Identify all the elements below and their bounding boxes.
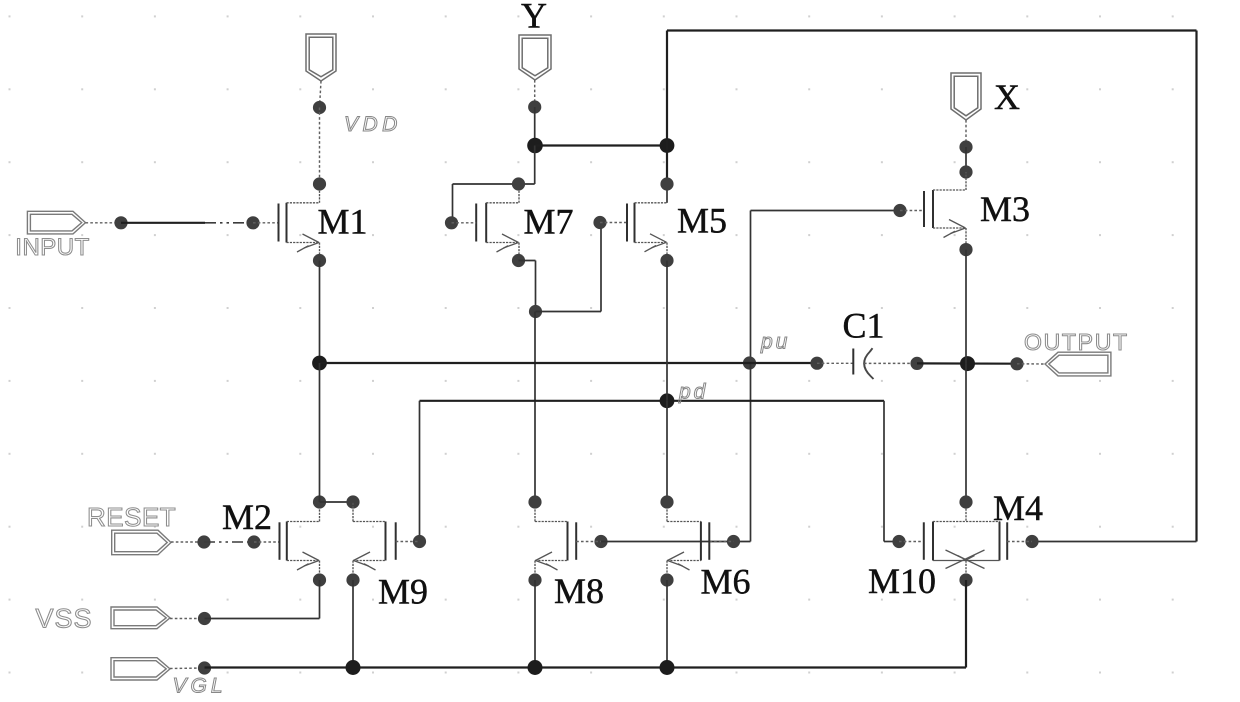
- port RESET: [112, 530, 171, 555]
- junction M2 source: [313, 573, 326, 586]
- wire M5 gate lead: [600, 222, 627, 224]
- wire pu row to OUTPUT: [917, 362, 1017, 365]
- junction M5 gate: [593, 216, 606, 229]
- wire M7 source to node n1: [519, 260, 536, 262]
- junction M3 gate: [893, 204, 906, 217]
- svg-text:VDD: VDD: [344, 113, 402, 136]
- junction M8 gate: [594, 535, 607, 548]
- wire M3 gate horizontal: [751, 210, 901, 212]
- junction M10 gate: [892, 535, 905, 548]
- wire M7 gate loop vertical: [452, 184, 454, 223]
- junction VDD stub: [313, 101, 326, 114]
- junction X stub: [959, 140, 972, 153]
- wire VGL rail: [205, 666, 967, 668]
- wire RESET to M2 gate: [254, 541, 280, 543]
- wire M1 source down to pu row: [319, 261, 321, 364]
- transistor M6 (mirrored): [708, 522, 710, 560]
- port VSS: [111, 607, 170, 629]
- wire loop left edge (x=667 up to box): [666, 31, 668, 146]
- wire M8 source down to VGL rail: [534, 580, 536, 668]
- transistor M9 (mirrored): [395, 522, 397, 560]
- wire M10 gate corner: [884, 541, 899, 543]
- junction M6 drain: [660, 495, 673, 508]
- wire M10 gate lead: [899, 541, 924, 543]
- junction INPUT gate side: [246, 216, 259, 229]
- wire RESET port lead: [171, 541, 204, 543]
- shared source arrows M10/M4: [946, 550, 985, 569]
- junction VGL lead: [198, 661, 211, 674]
- transistor M3: [923, 191, 925, 227]
- wire VSS to M2 source: [205, 618, 320, 620]
- junction node n1 corner: [529, 305, 542, 318]
- junction M9 gate: [413, 535, 426, 548]
- svg-text:M9: M9: [378, 572, 428, 612]
- wire pd right drop to M10 gate: [883, 401, 885, 542]
- wire M8 gate to M6 gate: [601, 541, 734, 543]
- junction VGL rail at M9: [346, 660, 361, 675]
- junction M7 drain: [512, 177, 525, 190]
- svg-text:M7: M7: [524, 202, 574, 242]
- junction pu left (M1/M2 column): [312, 356, 327, 371]
- capacitor C1: [852, 349, 854, 375]
- junction pu row at C1 left: [810, 357, 823, 370]
- svg-text:M2: M2: [222, 497, 272, 537]
- wire C1 left lead: [817, 362, 853, 364]
- wire Y branch horizontal: [535, 144, 667, 146]
- wire loop right edge: [1195, 31, 1197, 542]
- wire M7 drain node horizontal: [453, 183, 535, 185]
- junction M10/M4 drain: [959, 495, 972, 508]
- junction M2 drain: [313, 495, 326, 508]
- wire pd down to M6 drain: [666, 401, 668, 502]
- wire pu row left: [320, 362, 818, 364]
- wire pd left drop to M9 gate: [419, 401, 421, 542]
- junction Y stub: [528, 100, 541, 113]
- port OUTPUT: [1045, 352, 1111, 376]
- wire pu column (M3 gate down to pu row): [750, 211, 752, 364]
- svg-text:pd: pd: [678, 381, 708, 404]
- transistor M8 (mirrored): [575, 522, 577, 560]
- junction M8 drain: [528, 495, 541, 508]
- wire M2/M9 drain tie: [320, 501, 354, 503]
- pin Y (supply flag top centre): [519, 35, 551, 80]
- junction M3 source: [959, 243, 972, 256]
- wire M3 column down to M10/M4: [965, 364, 967, 502]
- junction VSS lead: [198, 612, 211, 625]
- svg-text:VSS: VSS: [36, 604, 93, 634]
- wire INPUT to M1 gate: [121, 222, 205, 224]
- junction M5 source: [660, 254, 673, 267]
- svg-text:C1: C1: [843, 305, 885, 345]
- wire Y vertical to branch: [534, 107, 536, 146]
- junction VGL rail at M8: [528, 660, 543, 675]
- wire M5 gate column vertical: [600, 223, 602, 312]
- svg-text:Y: Y: [521, 0, 547, 36]
- junction VGL rail at M6: [660, 660, 675, 675]
- wire INPUT gate lead: [253, 222, 279, 224]
- wire M5 drain from Y branch: [666, 146, 668, 185]
- wire VDD pin stub: [320, 81, 322, 108]
- pin X (supply flag right): [951, 73, 981, 120]
- junction RESET gate side: [247, 535, 260, 548]
- transistor M5: [626, 204, 628, 242]
- wire X pin stub: [965, 120, 967, 147]
- junction INPUT lead: [114, 216, 127, 229]
- junction M1 source: [313, 254, 326, 267]
- wire C1 right lead: [864, 362, 917, 364]
- junction M6 gate: [727, 535, 740, 548]
- wire INPUT dash-dot segment: [205, 222, 253, 224]
- svg-text:M5: M5: [677, 201, 727, 241]
- junction M4 gate: [1025, 535, 1038, 548]
- svg-text:M3: M3: [980, 189, 1030, 229]
- svg-text:M1: M1: [318, 202, 368, 242]
- wire Y pin stub: [534, 80, 536, 107]
- junction M8 source: [528, 573, 541, 586]
- wire M5 source down to pd: [666, 261, 668, 401]
- wire pu column corner to M6 gate: [734, 541, 751, 543]
- wire M7 gate lead: [452, 222, 477, 224]
- svg-text:OUTPUT: OUTPUT: [1024, 329, 1129, 355]
- junction OUTPUT lead: [1010, 357, 1023, 370]
- wire X to M3 drain: [965, 147, 967, 172]
- wire RESET middle: [204, 541, 254, 543]
- junction M9 source: [346, 573, 359, 586]
- svg-text:X: X: [994, 77, 1020, 117]
- wire loop top edge: [667, 29, 1197, 31]
- svg-text:M8: M8: [554, 571, 604, 611]
- wire M3 source down to pu row: [965, 250, 967, 364]
- wire OUTPUT port lead: [1017, 363, 1045, 365]
- wire M4 gate lead: [1007, 541, 1032, 543]
- junction Y branch right: [660, 138, 675, 153]
- wire M6 source down to VGL rail: [666, 580, 668, 668]
- wire M1 column down to M2 drain: [319, 363, 321, 502]
- svg-text:RESET: RESET: [87, 502, 176, 532]
- wire pd row: [420, 400, 885, 402]
- svg-text:VGL: VGL: [173, 675, 227, 698]
- junction M1 drain: [313, 177, 326, 190]
- port INPUT: [27, 211, 85, 234]
- wire VGL port lead: [170, 667, 205, 670]
- wire M2 source down to VSS: [319, 580, 321, 619]
- junction pu row right of C1: [910, 357, 923, 370]
- wire M6 gate lead: [709, 541, 733, 543]
- junction M7 gate: [445, 216, 458, 229]
- wire VDD to M1 drain: [319, 108, 321, 185]
- wire M10/M4 source down to rail corner: [965, 580, 967, 668]
- wire n1 horizontal to M5 gate column: [536, 311, 602, 313]
- wire M9 gate lead: [396, 541, 420, 543]
- junction M3 drain: [959, 165, 972, 178]
- svg-text:INPUT: INPUT: [15, 234, 90, 261]
- wire M3 gate lead: [900, 210, 924, 212]
- pin VDD (supply flag above M1): [306, 34, 336, 81]
- svg-text:pu: pu: [760, 331, 790, 354]
- wire M8 gate lead: [576, 541, 601, 543]
- transistor M1: [278, 204, 280, 242]
- wire VSS port lead: [170, 618, 205, 620]
- junction pu column: [743, 356, 756, 369]
- svg-text:M6: M6: [701, 562, 751, 602]
- junction M6 source: [660, 573, 673, 586]
- junction pd at M5/M6 column: [660, 393, 675, 408]
- wire loop bottom to M4 gate: [1032, 541, 1197, 543]
- wire INPUT port lead: [86, 222, 122, 224]
- junction pu row at M3 column: [960, 356, 975, 371]
- transistor M7: [475, 204, 477, 242]
- wire M9 source down to VGL rail: [352, 580, 354, 668]
- wire n1 down to M8 drain: [534, 312, 536, 503]
- junction M9 drain: [346, 495, 359, 508]
- wire pu column down to M6 gate row: [750, 363, 752, 542]
- junction M5 drain: [660, 177, 673, 190]
- port VGL: [111, 658, 170, 680]
- transistor M2: [279, 522, 281, 560]
- junction M7 source: [512, 254, 525, 267]
- junction M10/M4 source: [959, 573, 972, 586]
- junction RESET lead: [197, 535, 210, 548]
- svg-text:M10: M10: [868, 561, 936, 601]
- junction Y branch left: [527, 138, 543, 154]
- transistor pair M10/M4 (shared box): [923, 522, 925, 560]
- svg-text:M4: M4: [993, 488, 1043, 528]
- wire M7 drain drop from Y branch: [534, 146, 536, 185]
